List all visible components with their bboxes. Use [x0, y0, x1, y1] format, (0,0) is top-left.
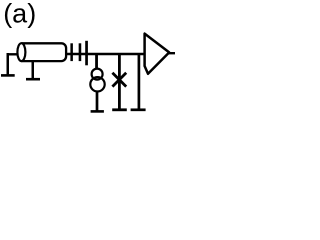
wire left vertical leg: [7, 53, 10, 75]
mirror bar 2: [79, 43, 82, 61]
oscillator circle top: [92, 69, 103, 80]
ground foot under tube: [26, 78, 40, 81]
amplifier output wire: [168, 52, 175, 54]
ground foot under oscillator: [91, 110, 104, 113]
mirror bar 1: [70, 43, 73, 61]
ground foot left: [1, 74, 15, 77]
ground foot under mixer: [112, 108, 127, 111]
main horizontal wire: [66, 53, 145, 56]
oscillator circle bottom: [90, 77, 104, 91]
svg-text:(a): (a): [3, 0, 36, 28]
laser tube end cap ellipse: [17, 43, 25, 61]
wire drop to oscillator: [95, 54, 98, 69]
wire left stub to laser tube: [7, 53, 18, 55]
laser tube body: [21, 43, 66, 61]
wire drop before amplifier: [138, 54, 141, 110]
amplifier triangle: [145, 34, 170, 74]
wire drop through mixer: [118, 54, 121, 110]
wire below oscillator: [96, 92, 99, 112]
mixer X stroke 2: [112, 73, 126, 87]
ground foot right: [131, 108, 146, 111]
laser tube support leg: [32, 61, 35, 79]
mirror bar 3: [85, 41, 88, 66]
mixer X stroke 1: [112, 73, 126, 87]
